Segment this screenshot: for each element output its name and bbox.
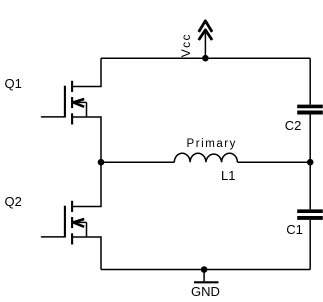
- wire bottom rail: [101, 269, 310, 271]
- wire Q2 source horizontal: [72, 236, 102, 238]
- wire middle node to C1: [309, 162, 311, 209]
- capacitor C1: [297, 211, 323, 218]
- wire Q2 gate lead: [41, 236, 64, 238]
- svg-text:Vcc: Vcc: [179, 33, 193, 57]
- wire right vertical top (rail to C2): [309, 58, 311, 104]
- inductor L1: [174, 153, 237, 162]
- node junction middle-right: [307, 159, 314, 166]
- svg-text:L1: L1: [221, 168, 235, 183]
- svg-text:GND: GND: [191, 284, 220, 299]
- wire C1 to bottom rail: [309, 220, 311, 270]
- wire middle left: [101, 161, 174, 163]
- wire Q1 drain vertical: [100, 58, 102, 86]
- svg-text:Q2: Q2: [5, 194, 22, 209]
- power symbol Vcc arrow: [199, 21, 212, 58]
- svg-text:C2: C2: [285, 118, 302, 133]
- node junction ground: [201, 266, 208, 273]
- node junction Vcc: [202, 55, 209, 62]
- capacitor C2: [297, 106, 323, 112]
- wire Q2 drain vertical: [100, 162, 102, 206]
- wire Q1 drain horizontal: [72, 86, 102, 88]
- wire middle right: [237, 161, 310, 163]
- ground: [194, 270, 219, 283]
- wire Q2 source vertical: [100, 237, 102, 270]
- node junction middle-left: [98, 159, 105, 166]
- wire Q1 gate lead: [41, 116, 64, 118]
- transistor Q1: [65, 81, 87, 125]
- svg-text:Primary: Primary: [187, 138, 237, 150]
- wire top rail: [101, 57, 310, 59]
- wire Q2 drain horizontal: [72, 206, 102, 208]
- transistor Q2: [65, 201, 87, 245]
- wire C2 to middle node: [309, 114, 311, 162]
- svg-text:Q1: Q1: [5, 76, 22, 91]
- wire Q1 source vertical: [100, 117, 102, 162]
- wire Q1 source horizontal: [72, 116, 102, 118]
- svg-text:C1: C1: [286, 222, 303, 237]
